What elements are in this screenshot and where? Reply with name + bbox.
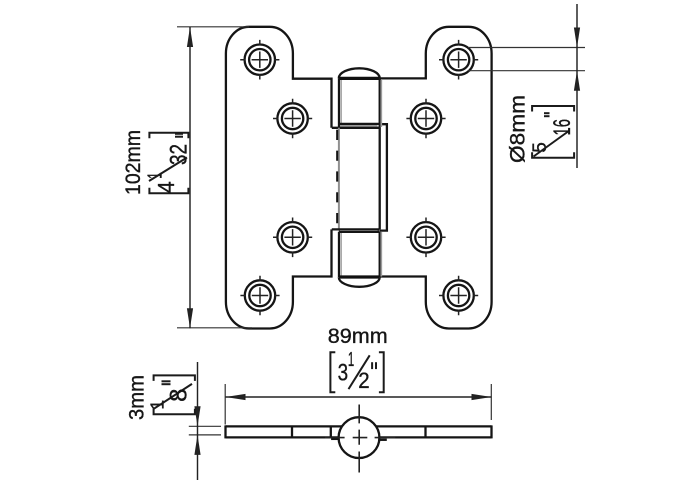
side view leaf tick A bbox=[291, 426, 293, 437]
dimension 3mm line bbox=[197, 362, 199, 480]
svg-text:16: 16 bbox=[549, 119, 576, 136]
dimension Ø8 extension lower bbox=[468, 70, 585, 72]
middle knuckle hidden edge (dashed) bbox=[336, 128, 338, 230]
bottom knuckle left inner shadow bbox=[340, 233, 342, 276]
screw hole H3 mid-left bbox=[273, 99, 312, 139]
side view leaf tick C bbox=[424, 426, 426, 437]
right leaf outline bbox=[380, 27, 492, 329]
svg-text:Ø8mm: Ø8mm bbox=[506, 95, 530, 163]
screw hole H8 bottom-right bbox=[439, 276, 478, 316]
top knuckle dome base bbox=[339, 77, 380, 80]
top knuckle left inner shadow bbox=[340, 80, 342, 127]
svg-text:3mm: 3mm bbox=[125, 375, 149, 420]
svg-text:2: 2 bbox=[358, 368, 369, 393]
screw hole H2 top-right bbox=[439, 40, 478, 80]
top knuckle right shadow bbox=[380, 80, 382, 127]
side view leaf tick B bbox=[330, 426, 332, 437]
dimension 102mm arrow down bbox=[187, 308, 193, 328]
top knuckle right edge bbox=[379, 78, 381, 128]
lower ledge bbox=[332, 228, 380, 230]
svg-text:3: 3 bbox=[338, 360, 349, 387]
dimension Ø8 line bbox=[576, 4, 578, 168]
top knuckle dome bbox=[339, 68, 380, 78]
dimension 89mm arrow left bbox=[226, 394, 246, 400]
svg-text:32: 32 bbox=[166, 144, 193, 165]
screw hole H5 lower-left bbox=[273, 218, 312, 258]
screw hole H1 top-left bbox=[240, 40, 279, 80]
dimension 102mm line bbox=[189, 27, 191, 328]
side view crosshair bbox=[358, 405, 360, 473]
label Ø8mm [5/16"] bbox=[506, 95, 577, 163]
svg-text:1: 1 bbox=[348, 349, 354, 371]
screw hole H4 mid-right bbox=[406, 99, 445, 139]
dimension 89mm line bbox=[226, 396, 492, 398]
right leaf pocket step bbox=[380, 124, 387, 230]
svg-text:102mm: 102mm bbox=[121, 130, 145, 195]
dimension Ø8 arrow up bbox=[574, 71, 580, 91]
dimension 3mm arrow down bbox=[194, 406, 200, 426]
label 3mm [1/8"] bbox=[125, 375, 195, 420]
dimension Ø8 extension upper bbox=[468, 47, 585, 49]
svg-text:4: 4 bbox=[153, 181, 179, 193]
top knuckle left edge bbox=[338, 78, 340, 128]
bottom knuckle right shadow bbox=[380, 232, 382, 277]
side view curl step left bbox=[331, 438, 339, 440]
dimension 3mm arrow up bbox=[194, 435, 200, 455]
dimension 3mm extension upper bbox=[189, 425, 221, 427]
side view curl step right bbox=[380, 439, 387, 441]
dimension Ø8 arrow down bbox=[574, 28, 580, 48]
middle knuckle right edge bbox=[379, 128, 381, 230]
dimension 89mm extension right bbox=[490, 384, 492, 420]
screw hole H7 bottom-left bbox=[240, 276, 279, 316]
dimension 102mm arrow up bbox=[187, 27, 193, 47]
dimension 89mm extension left bbox=[224, 384, 226, 425]
svg-text:8: 8 bbox=[166, 389, 193, 402]
dimension 89mm arrow right bbox=[472, 394, 492, 400]
bottom knuckle dome base bbox=[339, 275, 380, 278]
bottom knuckle dome bbox=[339, 277, 380, 287]
label 89mm [3 1/2"] bbox=[328, 325, 388, 393]
dimension 102mm extension bottom bbox=[177, 327, 252, 329]
dimension 102mm extension top bbox=[177, 26, 249, 28]
upper ledge bbox=[339, 123, 380, 125]
middle knuckle left edge (visible) bbox=[338, 128, 340, 230]
screw hole H6 lower-right bbox=[406, 218, 445, 258]
bottom knuckle right edge bbox=[379, 232, 381, 277]
svg-text:89mm: 89mm bbox=[328, 325, 388, 348]
dimension 3mm extension lower bbox=[189, 434, 221, 436]
side view knuckle circle bbox=[339, 417, 380, 458]
left leaf outline bbox=[226, 27, 332, 329]
label 102mm [4 1/32"] bbox=[121, 130, 193, 195]
bottom knuckle left edge bbox=[338, 232, 340, 277]
side view strip bbox=[226, 425, 492, 438]
